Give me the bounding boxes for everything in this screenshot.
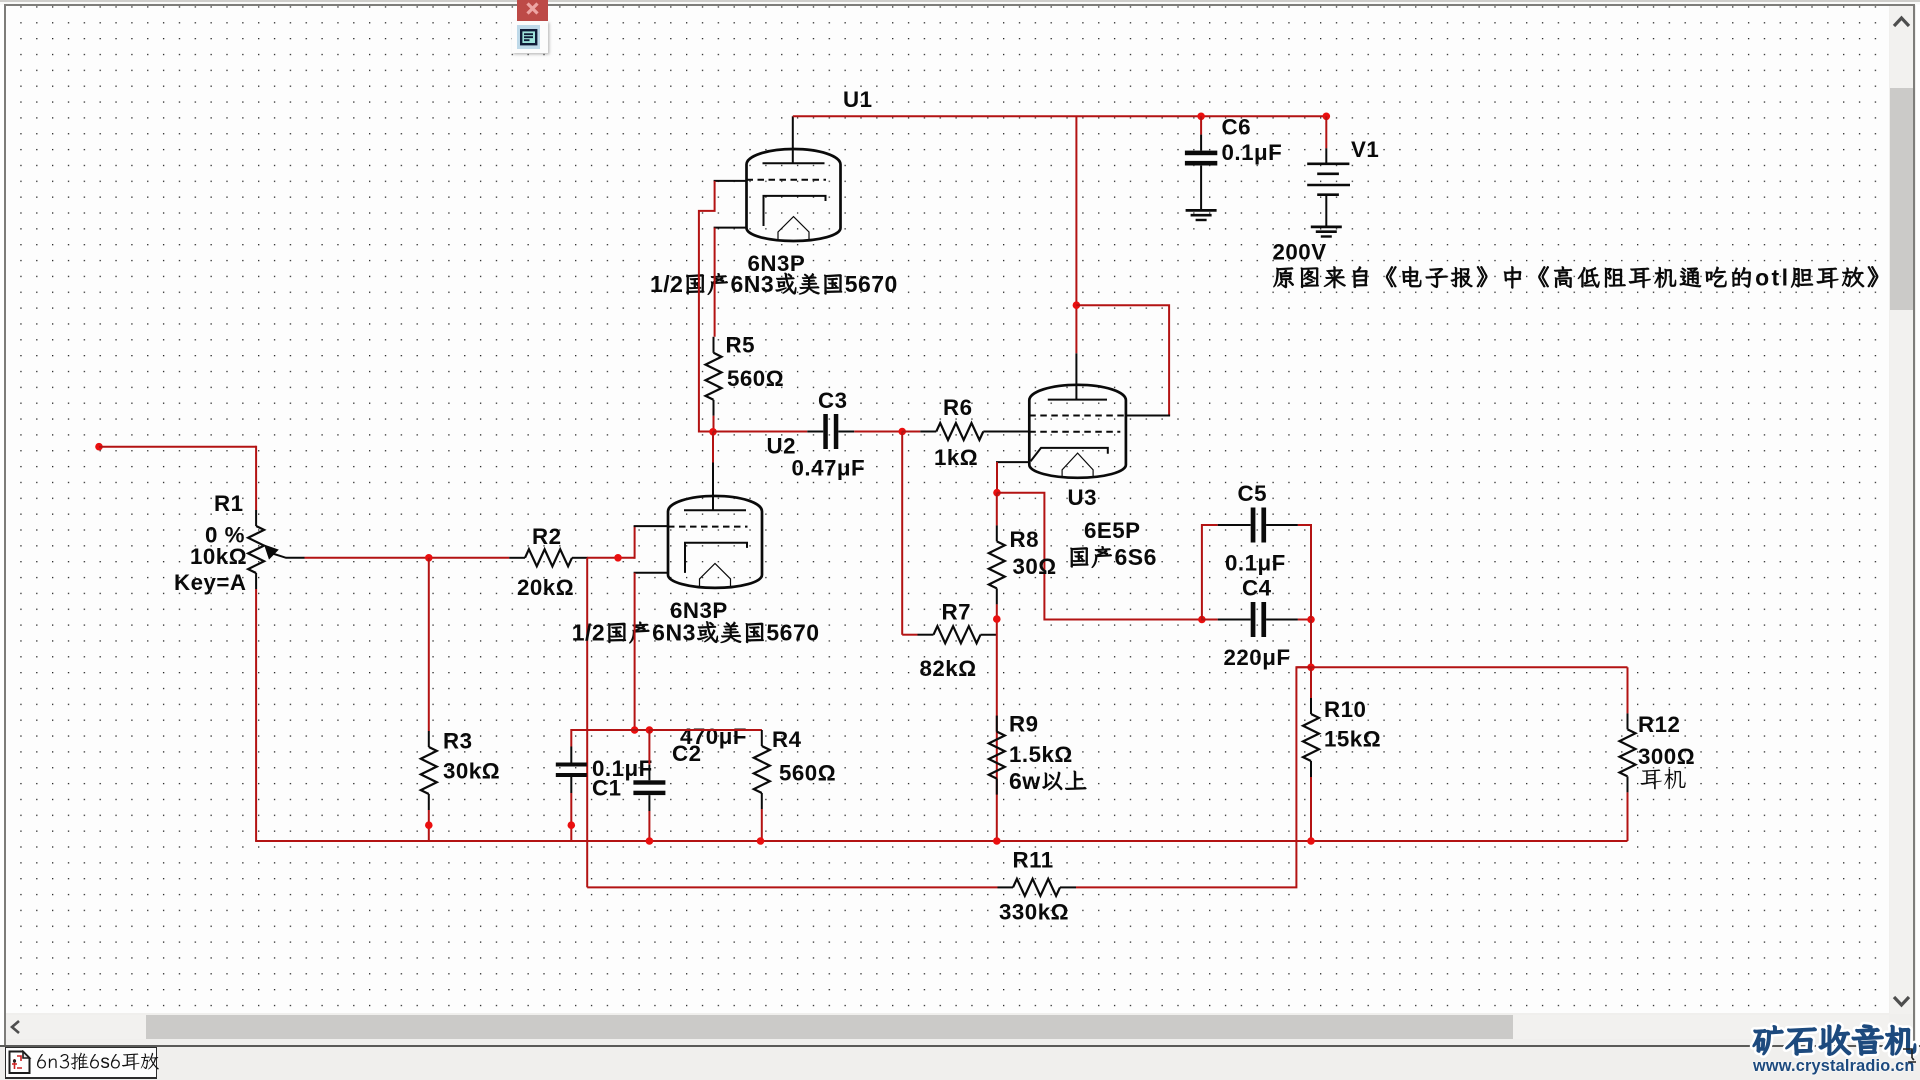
junction R3 bottom	[425, 821, 433, 829]
U2 cathode pin	[634, 572, 668, 574]
svg-text:R5: R5	[726, 333, 756, 358]
ground V1	[1311, 225, 1342, 228]
junction C2 rail	[646, 837, 654, 845]
U1 grid pin	[714, 180, 747, 182]
floating toolbar panel	[512, 21, 548, 53]
svg-text:C4: C4	[1242, 576, 1272, 601]
junction C1 bottom	[568, 821, 576, 829]
wire U2 cathode down	[634, 573, 636, 730]
resistor R3	[428, 731, 430, 747]
junction R4 rail	[757, 837, 765, 845]
junction R8 bottom node	[993, 615, 1001, 623]
capacitor C4	[1202, 619, 1218, 621]
junction R10 rail	[1307, 837, 1315, 845]
node IN terminal dot	[95, 443, 103, 451]
junction U2 grid node	[614, 554, 622, 562]
svg-text:C6: C6	[1222, 114, 1252, 139]
resistor R8	[996, 493, 998, 526]
wire R10 to rail	[1310, 777, 1312, 841]
potentiometer R1	[255, 510, 257, 526]
wire R2 to U2 grid node	[587, 557, 634, 559]
wire C5 branch right	[1298, 525, 1311, 619]
svg-text:R2: R2	[532, 524, 562, 549]
resistor R7	[918, 634, 934, 636]
svg-text:U1: U1	[843, 87, 873, 112]
svg-text:0.47μF: 0.47μF	[792, 456, 866, 481]
svg-text:C3: C3	[818, 388, 848, 413]
design sheet tab	[5, 1047, 157, 1078]
junction output node	[1307, 664, 1315, 672]
scrollbar thumb horizontal	[146, 1015, 1513, 1039]
U2 grid pin	[634, 525, 668, 527]
wire input down to R1	[255, 446, 257, 510]
junction C4 left node	[1198, 616, 1206, 624]
wire V1 top	[1325, 116, 1327, 148]
wire cathode bus C1-C2-R4	[571, 729, 762, 731]
capacitor C2	[648, 730, 650, 765]
wire R4 to rail	[761, 809, 763, 841]
wire R5 to node	[713, 416, 715, 433]
tab page icon	[8, 1050, 32, 1075]
svg-text:1kΩ: 1kΩ	[934, 445, 978, 470]
wire C2 to rail	[648, 811, 650, 841]
resistor R2	[509, 557, 525, 559]
junction C4 right node	[1307, 616, 1315, 624]
outer left white strip	[0, 0, 4, 1045]
capacitor C3	[807, 431, 823, 433]
svg-text:C1: C1	[592, 776, 622, 801]
outer right white strip	[1916, 0, 1920, 1045]
svg-text:R6: R6	[943, 395, 973, 420]
svg-text:C2: C2	[672, 741, 702, 766]
svg-text:Key=A: Key=A	[174, 570, 247, 595]
scrollbar up arrow	[1890, 14, 1913, 30]
svg-text:原图来自《电子报》中《高低阻耳机通吃的otl胆耳放》: 原图来自《电子报》中《高低阻耳机通吃的otl胆耳放》	[1273, 262, 1893, 293]
wire R6 node down to R7	[901, 432, 903, 635]
toolbar blue button with list icon	[517, 25, 540, 49]
battery V1 200V	[1325, 148, 1327, 163]
scrollbar down arrow	[1890, 993, 1913, 1009]
vertical scrollbar	[1890, 6, 1913, 1014]
svg-text:R8: R8	[1010, 527, 1040, 552]
text cursor mark	[1901, 1046, 1920, 1068]
wire R1 bottom to ground rail	[255, 589, 257, 841]
scrollbar left arrow	[8, 1019, 24, 1035]
junction screen branch	[1073, 301, 1081, 309]
svg-text:1/2国产6N3或美国5670: 1/2国产6N3或美国5670	[650, 268, 898, 299]
U3 anode pin	[1075, 353, 1077, 400]
wire U2 grid riser	[634, 526, 636, 559]
junction SRPP node	[709, 428, 717, 436]
junction R9 rail	[993, 837, 1001, 845]
junction C3/R6/R7 node	[898, 428, 906, 436]
wire C5 branch left	[1202, 525, 1218, 621]
wire R12 to rail	[1627, 792, 1629, 841]
svg-text:30kΩ: 30kΩ	[443, 758, 500, 783]
resistor R5	[713, 337, 715, 353]
svg-text:560Ω: 560Ω	[779, 760, 836, 785]
ground C6	[1186, 209, 1217, 212]
svg-text:82kΩ: 82kΩ	[920, 656, 977, 681]
junction C2 top	[646, 726, 654, 734]
svg-text:R10: R10	[1324, 697, 1366, 722]
wire C3 to R6	[854, 431, 902, 433]
resistor R6	[902, 431, 920, 433]
U3 cathode pin	[996, 461, 1029, 463]
wire C1 to rail	[570, 793, 572, 841]
svg-text:V1: V1	[1351, 137, 1379, 162]
svg-text:耳机: 耳机	[1640, 763, 1687, 794]
junction U2 cathode node	[631, 726, 639, 734]
wire R1 wiper to R2	[305, 557, 510, 559]
svg-text:R11: R11	[1013, 848, 1054, 873]
svg-text:560Ω: 560Ω	[727, 366, 784, 391]
triode U1 6N3P	[747, 149, 841, 241]
svg-text:6E5P: 6E5P	[1084, 518, 1141, 543]
capacitor C5	[1218, 524, 1251, 526]
svg-text:R3: R3	[443, 728, 473, 753]
scrollbar thumb vertical	[1890, 88, 1913, 310]
U3 anode wire from rail	[1075, 116, 1077, 353]
wire node to C3	[713, 431, 807, 433]
svg-text:R12: R12	[1638, 712, 1680, 737]
wire R8 to rail	[996, 604, 998, 841]
U3 screen pin	[1126, 415, 1170, 417]
svg-text:0.1μF: 0.1μF	[1225, 551, 1286, 576]
svg-text:10kΩ: 10kΩ	[190, 544, 247, 569]
svg-text:1/2国产6N3或美国5670: 1/2国产6N3或美国5670	[572, 617, 820, 648]
wire to R7	[902, 634, 917, 636]
resistor R12	[1627, 667, 1629, 713]
svg-text:U3: U3	[1068, 485, 1098, 510]
tetrode U3 6E5P	[1029, 385, 1126, 478]
wire C4 node down to output node	[1310, 620, 1312, 668]
wire input horizontal	[99, 446, 256, 448]
svg-text:C5: C5	[1238, 481, 1268, 506]
svg-text:30Ω: 30Ω	[1013, 554, 1057, 579]
resistor R10	[1310, 667, 1312, 698]
wire R3 drop	[428, 558, 430, 731]
wire R11 run	[587, 886, 997, 888]
svg-text:R9: R9	[1009, 712, 1039, 737]
U1 anode pin	[792, 116, 794, 163]
svg-text:330kΩ: 330kΩ	[999, 900, 1069, 925]
U1 cathode pin	[714, 227, 747, 229]
resistor R11	[998, 886, 1014, 888]
outer top strip	[0, 0, 1920, 2]
tab bar divider line	[0, 1045, 1920, 1047]
svg-text:R1: R1	[214, 491, 244, 516]
svg-text:0.1μF: 0.1μF	[1222, 140, 1283, 165]
junction C6 top	[1197, 113, 1205, 121]
wire U3 cathode down	[996, 462, 998, 494]
wire screen branch	[1076, 305, 1169, 415]
resistor R4	[649, 729, 761, 731]
svg-text:国产6S6: 国产6S6	[1068, 541, 1157, 572]
svg-text:15kΩ: 15kΩ	[1324, 727, 1381, 752]
floating toolbar close button	[517, 0, 548, 21]
top supply rail	[793, 115, 1327, 117]
wire output to R12	[1296, 666, 1627, 668]
capacitor C1	[570, 729, 572, 747]
crystalradio watermark logo	[1752, 1019, 1920, 1059]
wire long feedback drop	[586, 558, 588, 888]
wire R3 to rail	[428, 810, 430, 841]
junction U3 cathode node	[993, 489, 1001, 497]
wire bottom ground rail	[255, 840, 1627, 842]
svg-text:R4: R4	[772, 727, 802, 752]
svg-text:20kΩ: 20kΩ	[517, 575, 574, 600]
svg-text:R7: R7	[942, 600, 972, 625]
junction R3 tap	[425, 554, 433, 562]
wire U1 grid route	[699, 181, 715, 432]
wire R11 to output riser	[1076, 667, 1312, 887]
junction V1 top corner	[1323, 113, 1331, 121]
resistor R9	[996, 716, 998, 732]
wire node to U2 anode	[712, 432, 714, 463]
tab text	[36, 1049, 159, 1074]
svg-text:220μF: 220μF	[1224, 645, 1291, 670]
horizontal scrollbar	[6, 1015, 1889, 1039]
wire cathode node to C4 branch	[997, 493, 1202, 620]
svg-text:6w以上: 6w以上	[1009, 765, 1088, 796]
svg-text:1.5kΩ: 1.5kΩ	[1009, 742, 1073, 767]
U2 anode pin	[712, 462, 714, 511]
triode U2 6N3P	[668, 496, 762, 588]
capacitor C6	[1200, 116, 1202, 134]
wire U1 cathode to R5	[714, 228, 716, 337]
